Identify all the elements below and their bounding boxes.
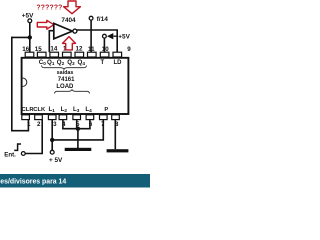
svg-text:7404: 7404 — [61, 17, 76, 24]
wire inverter output to pin 9 — [77, 30, 117, 52]
IC U1 74161 body — [22, 58, 129, 114]
svg-text:Ent.: Ent. — [4, 152, 16, 159]
pin box 9 — [113, 52, 122, 57]
svg-text:f/14: f/14 — [97, 16, 109, 23]
svg-text:CLK: CLK — [33, 107, 46, 113]
svg-text:es/divisores para 14: es/divisores para 14 — [0, 179, 66, 186]
junction node — [28, 35, 32, 39]
inverter U1 7404 triangle — [54, 23, 73, 38]
pin box 11 — [88, 52, 97, 57]
pin box 8 — [112, 115, 120, 120]
+5V terminal top left — [28, 19, 32, 23]
pin box 6 — [86, 115, 94, 120]
inverter bubble — [73, 29, 77, 33]
wire ground bus — [62, 128, 91, 130]
pin box 5 — [73, 115, 81, 120]
wire pin 5 L3 — [76, 120, 78, 129]
wire f/14 to pin 11 — [90, 20, 92, 52]
wire L1 to P — [52, 120, 103, 140]
svg-text:P: P — [104, 107, 108, 113]
wire pin 8 GND — [114, 120, 116, 150]
svg-text:+5V: +5V — [22, 13, 34, 20]
svg-text:+5V: +5V — [118, 34, 130, 41]
wire bus to ground — [77, 129, 79, 149]
f/14 terminal — [89, 16, 93, 20]
pin box 10 — [100, 52, 109, 57]
pin box 12 — [75, 52, 84, 57]
svg-text:3: 3 — [53, 121, 57, 128]
wire inverter input from pin 14 — [49, 31, 54, 53]
svg-text:2: 2 — [37, 121, 41, 128]
+5V terminal at pin 10 — [103, 34, 107, 38]
junction node L1 — [50, 138, 54, 142]
pin box 15 — [37, 52, 46, 57]
Ent terminal — [21, 152, 25, 156]
+5V arrow — [107, 33, 113, 39]
wire +5V down to pin 16 — [29, 23, 31, 52]
pin box 14 — [50, 52, 59, 57]
svg-text:16: 16 — [22, 46, 29, 53]
wire to pin 1 — [11, 120, 28, 131]
svg-text:T: T — [101, 60, 105, 66]
red arrow down — [64, 1, 81, 14]
red arrow right — [37, 20, 54, 29]
svg-text:10: 10 — [102, 46, 109, 53]
wire pin 6 L4 — [89, 120, 91, 129]
banner bar — [0, 174, 150, 188]
brace load inputs — [55, 90, 90, 94]
pin box 7 — [100, 115, 108, 120]
clock pulse symbol — [14, 144, 21, 150]
junction node bus — [76, 127, 80, 131]
red arrow up — [63, 37, 76, 50]
+5V terminal bottom — [50, 150, 54, 154]
pin box 1 — [22, 115, 30, 120]
wire Ent to pin 2 CLK — [25, 120, 42, 154]
svg-text:saídas: saídas — [57, 70, 74, 76]
wire pin 3 L1 — [51, 120, 53, 151]
wire +5V to pin 10 — [103, 38, 105, 52]
wire pin 4 L2 — [62, 120, 64, 129]
svg-text:9: 9 — [127, 46, 131, 53]
pin box 3 — [48, 115, 56, 120]
svg-text:12: 12 — [76, 45, 83, 52]
pin box 2 — [35, 115, 43, 120]
svg-text:14: 14 — [50, 45, 57, 52]
pin box 4 — [59, 115, 67, 120]
ground symbol right — [107, 149, 129, 152]
svg-text:LOAD: LOAD — [56, 84, 74, 90]
svg-text:LD: LD — [114, 60, 123, 66]
svg-text:15: 15 — [35, 46, 42, 53]
ground symbol left — [65, 148, 92, 151]
brace saidas — [42, 66, 87, 70]
svg-text:??????: ?????? — [36, 4, 62, 11]
wire left side down — [11, 37, 13, 132]
svg-text:74161: 74161 — [58, 77, 75, 83]
pin box 16 — [25, 52, 34, 57]
svg-text:+ 5V: + 5V — [49, 157, 63, 164]
IC notch — [23, 78, 27, 86]
wire junction left — [12, 36, 30, 38]
pin box 13 — [63, 52, 72, 57]
